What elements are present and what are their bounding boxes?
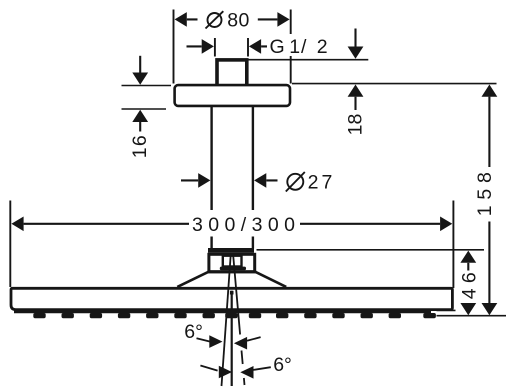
cone left slope bbox=[177, 272, 208, 287]
svg-text:158: 158 bbox=[474, 172, 496, 216]
G1/2 threaded connector bbox=[217, 60, 247, 86]
dimension Ø80 leader lines bbox=[187, 18, 278, 20]
spray face bottom line bbox=[14, 310, 431, 313]
dimension Ø80 extension lines bbox=[174, 10, 291, 84]
dimension 158 line upper segment bbox=[488, 97, 490, 167]
angle 6 degrees upper arrowheads bbox=[209, 335, 247, 349]
dimension 16 extension line at plate top bbox=[122, 85, 172, 87]
value label G 1/2 bbox=[268, 34, 333, 56]
svg-text:G1/2: G1/2 bbox=[270, 36, 328, 58]
dimension 300/300 line left segment bbox=[24, 223, 189, 225]
svg-text:6°: 6° bbox=[184, 321, 203, 343]
dimension 18 extension line at connector top bbox=[243, 59, 368, 61]
pipe Ø27 vertical tube bbox=[212, 107, 253, 249]
dimension Ø27 leader lines bbox=[181, 179, 278, 181]
dimension 158 line lower segment bbox=[488, 222, 490, 304]
hub skirt bbox=[220, 267, 246, 271]
pipe collar bar bbox=[208, 248, 254, 253]
ceiling plate escutcheon Ø80 bbox=[175, 85, 290, 106]
hub box bbox=[209, 254, 255, 271]
dimension Ø27 arrowheads bbox=[198, 173, 266, 188]
dimension 18 arrowheads bbox=[348, 47, 364, 97]
angle 6 degrees upper leader lines bbox=[197, 337, 261, 342]
value label 300/300 bbox=[190, 210, 299, 237]
dimension 16 arrowheads bbox=[132, 73, 148, 123]
dimension 16 lower leader line bbox=[139, 122, 141, 132]
dimension 46 arrowheads bbox=[460, 251, 476, 316]
hub bottom edge bbox=[207, 270, 256, 273]
spray angle line right bbox=[233, 256, 244, 386]
dimension 300/300 right extension line bbox=[452, 201, 454, 289]
dimension Ø27 diameter symbol bbox=[286, 172, 305, 192]
dimension 16 upper leader line bbox=[139, 56, 141, 73]
dimension Ø80 diameter symbol bbox=[206, 11, 224, 28]
dimension 18 lower leader line bbox=[354, 97, 356, 110]
svg-text:18: 18 bbox=[345, 114, 367, 136]
shower head body 300x300 bbox=[11, 288, 452, 309]
dimension 46 leader line bbox=[467, 263, 469, 271]
angle 6 degrees lower leader lines bbox=[200, 366, 270, 371]
angle 6 degrees lower arrowheads bbox=[219, 366, 254, 379]
extension line at spray face bottom bbox=[437, 310, 507, 315]
svg-text:6°: 6° bbox=[273, 354, 292, 376]
hub inner cup bbox=[223, 256, 242, 267]
dimension 158 arrowheads bbox=[482, 85, 498, 316]
cone right slope bbox=[255, 272, 286, 287]
dimension 300/300 line right segment bbox=[300, 223, 440, 225]
svg-text:80: 80 bbox=[227, 10, 249, 32]
spray center line bbox=[231, 291, 233, 386]
nozzle teeth row bbox=[33, 313, 436, 318]
dimension 46 extension line at collar top bbox=[257, 249, 485, 251]
dimension 16 extension line at plate bottom bbox=[122, 108, 167, 110]
dimension 300/300 arrowheads bbox=[11, 217, 452, 232]
dimension 18 upper leader line bbox=[354, 29, 356, 47]
dimension 300/300 left extension line bbox=[9, 201, 11, 288]
dimension G1/2 leader lines bbox=[187, 45, 268, 47]
dimension Ø80 arrowheads bbox=[175, 12, 290, 27]
spray angle line left bbox=[222, 255, 231, 386]
extension line at plate top bbox=[292, 83, 497, 85]
dimension G1/2 arrowheads bbox=[202, 39, 261, 54]
svg-text:16: 16 bbox=[129, 135, 151, 158]
dimension G1/2 extension lines bbox=[215, 38, 248, 57]
